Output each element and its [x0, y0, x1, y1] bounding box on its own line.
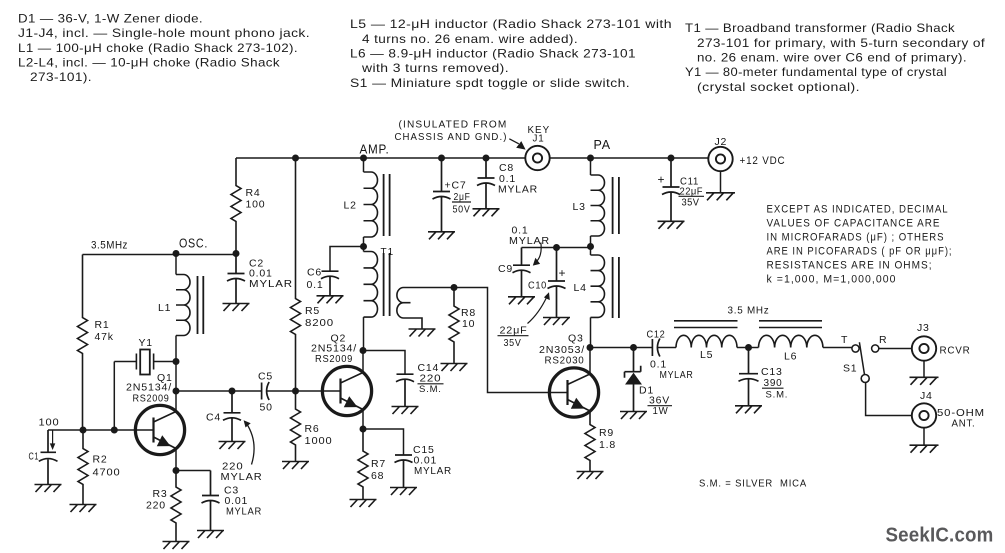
svg-text:RS2009: RS2009 [133, 393, 170, 405]
svg-text:D1 — 36-V, 1-W Zener diode.: D1 — 36-V, 1-W Zener diode. [18, 12, 203, 26]
wire L4 bottom to Q3 collector node [590, 317, 592, 347]
wire supply rail J1 to J2 [550, 157, 709, 159]
junction PA rail-L3 [587, 155, 594, 162]
core lines above L5 [674, 321, 738, 328]
core lines of L1 [198, 276, 204, 334]
phono jack J2 +12V [708, 147, 732, 171]
junction L2-T1-C6 [360, 243, 367, 250]
svg-text:S1 — Miniature spdt toggle or: S1 — Miniature spdt toggle or slide swit… [350, 76, 630, 90]
svg-text:RS2030: RS2030 [545, 355, 585, 367]
wire J4 ground lead [923, 428, 925, 446]
phono jack J4 antenna [912, 403, 936, 427]
svg-text:22μF: 22μF [500, 325, 528, 337]
svg-text:273-101).: 273-101). [30, 70, 92, 84]
wire Q1 emitter down [175, 449, 177, 471]
wire T1 primary top lead [363, 247, 365, 252]
svg-text:MYLAR: MYLAR [226, 506, 262, 518]
svg-text:L5 — 12-μH inductor (Radio Sha: L5 — 12-μH inductor (Radio Shack 273-101… [350, 17, 672, 31]
svg-text:47k: 47k [95, 331, 114, 343]
capacitor C9 0.1 mylar [513, 248, 531, 297]
wire 3.5MHz node from R1 to OSC node [83, 254, 237, 256]
arrow from GND label to J1 [509, 139, 519, 144]
svg-text:+12 VDC: +12 VDC [740, 155, 786, 167]
legend parts list left column [18, 12, 310, 85]
wire L2 bottom lead [363, 237, 365, 247]
ground below C2 [223, 304, 250, 312]
svg-text:EXCEPT AS INDICATED, DECIMAL: EXCEPT AS INDICATED, DECIMAL [767, 204, 949, 216]
capacitor C2 0.01 mylar [227, 254, 245, 304]
svg-text:ANT.: ANT. [952, 418, 976, 430]
resistor R8 10 [449, 288, 459, 364]
svg-text:1W: 1W [653, 405, 669, 417]
svg-text:S1: S1 [843, 363, 857, 375]
ground below C9 [508, 297, 535, 305]
svg-text:2μF: 2μF [454, 191, 471, 203]
wire L3 top lead [590, 158, 592, 175]
transistor Q1 2N5134/RS2009 [135, 405, 184, 454]
svg-text:ARE IN PICOFARADS ( pF OR μμF): ARE IN PICOFARADS ( pF OR μμF); [767, 246, 953, 258]
wire C6 branch corner [330, 247, 364, 272]
ground below C4 [219, 442, 246, 450]
svg-text:L1: L1 [158, 302, 171, 314]
svg-text:10: 10 [462, 318, 475, 330]
wire C5 to Q2 base [267, 390, 341, 392]
svg-text:T: T [841, 334, 848, 346]
svg-text:1000: 1000 [305, 435, 333, 447]
wire J3 ground lead [923, 361, 925, 378]
junction Q3 collector node [587, 344, 594, 351]
wire Q1 collector node to C5 [176, 390, 262, 392]
underline C11 value [679, 195, 705, 197]
inductor L4 [591, 255, 605, 317]
capacitor C4 220 mylar [223, 391, 241, 442]
svg-text:3.5MHz: 3.5MHz [91, 240, 128, 252]
svg-text:35V: 35V [682, 198, 700, 209]
resistor R6 1000 [291, 391, 301, 462]
svg-text:C9: C9 [498, 263, 513, 275]
svg-text:L3: L3 [573, 201, 586, 213]
junction C10 tap [553, 244, 560, 251]
ground below C6 [317, 296, 344, 304]
ground below R6 [282, 462, 309, 470]
wire L1 top lead [175, 254, 177, 275]
svg-text:MYLAR: MYLAR [660, 369, 694, 381]
underline D1 value [648, 405, 673, 407]
legend parts list right column [685, 21, 985, 94]
legend parts list middle column [350, 17, 672, 90]
capacitor C10 22uF electrolytic [548, 248, 566, 318]
junction L5-L6-C13 [745, 344, 752, 351]
junction rail-C11 [668, 155, 675, 162]
underline C7 value [452, 201, 471, 203]
wire T1 primary bottom to Q2 collector node [363, 317, 365, 350]
svg-text:C4: C4 [206, 412, 221, 424]
svg-text:Q3: Q3 [568, 333, 584, 345]
wire R contact to J3 [879, 348, 912, 350]
svg-text:J2: J2 [715, 136, 728, 148]
svg-text:R1: R1 [95, 319, 110, 331]
wire L6 to switch T contact [823, 347, 852, 349]
wire Y1 left terminal down to base node [113, 362, 115, 431]
capacitor C1 100pF [39, 430, 58, 485]
ground below C8 [473, 209, 500, 217]
svg-text:C5: C5 [258, 371, 273, 383]
svg-text:100: 100 [39, 417, 60, 429]
svg-text:J1: J1 [533, 134, 545, 145]
resistor R2 4700 [78, 430, 88, 505]
ground below C10 [543, 318, 570, 326]
svg-text:T1 — Broadband transformer (Ra: T1 — Broadband transformer (Radio Shack [685, 21, 955, 35]
junction L3-L4-C9 wire [587, 243, 594, 250]
svg-text:C10: C10 [528, 280, 547, 292]
capacitor C8 0.1 mylar [477, 158, 495, 209]
svg-text:with 3 turns removed).: with 3 turns removed). [361, 61, 509, 75]
svg-text:IN MICROFARADS (μF) ; OTHERS: IN MICROFARADS (μF) ; OTHERS [767, 232, 945, 244]
junction rail-R5 [292, 155, 299, 162]
svg-text:35V: 35V [504, 337, 522, 349]
svg-text:J3: J3 [917, 322, 930, 334]
ground below R2 [70, 505, 97, 513]
wire J2 ground lead [720, 171, 722, 193]
svg-text:k =1,000, M=1,000,000: k =1,000, M=1,000,000 [767, 274, 897, 286]
svg-text:3.5 MHz: 3.5 MHz [728, 305, 770, 317]
svg-text:MYLAR: MYLAR [414, 465, 452, 477]
ground below J4 [910, 445, 939, 453]
junction emitter-R3-C3 [173, 467, 180, 474]
zener diode D1 36V 1W [625, 348, 642, 412]
resistor R1 47k [78, 255, 88, 431]
capacitor C14 220 silver mica [396, 374, 414, 407]
junction collector line to C5 wire [173, 388, 180, 395]
svg-text:CHASSIS AND GND.): CHASSIS AND GND.) [395, 132, 508, 143]
svg-text:R3: R3 [153, 488, 168, 500]
svg-text:1.8: 1.8 [599, 439, 616, 451]
capacitor C15 0.01 mylar [395, 455, 413, 488]
svg-text:RS2009: RS2009 [315, 353, 353, 365]
junction base-Y1 branch [111, 427, 118, 434]
ground below C15 [390, 488, 417, 496]
wire L5 to L6 [737, 347, 759, 349]
junction R5-R6 tap [292, 388, 299, 395]
svg-text:L2-L4, incl. — 10-μH choke (Ra: L2-L4, incl. — 10-μH choke (Radio Shack [18, 55, 280, 69]
junction C4 tap [229, 388, 236, 395]
svg-text:L2: L2 [344, 200, 357, 212]
core lines of L3 [613, 177, 619, 234]
capacitor C6 0.1 [321, 271, 339, 296]
capacitor C5 50pF [262, 382, 270, 400]
ground below C1 [35, 485, 62, 493]
underline C10 value [498, 335, 529, 337]
wire Q3 collector up [589, 348, 591, 375]
junction T1 secondary - R8 [451, 284, 458, 291]
svg-text:(crystal socket optional).: (crystal socket optional). [697, 80, 860, 94]
svg-text:68: 68 [371, 470, 384, 482]
wire L2 top lead [363, 158, 365, 172]
capacitor C13 390 silver mica [739, 348, 759, 406]
svg-text:+: + [658, 173, 665, 187]
core lines above L6 [759, 321, 822, 328]
ground below C14 [392, 407, 419, 415]
junction base-R1R2 [80, 427, 87, 434]
resistor R3 220 [171, 471, 181, 542]
svg-text:390: 390 [764, 377, 783, 389]
wire Q1 base node [48, 429, 154, 431]
ground below J3 [910, 377, 939, 385]
junction rail-C7 [438, 155, 445, 162]
resistor R4 100 [231, 158, 241, 254]
resistor R9 1.8 [585, 411, 595, 472]
svg-text:R7: R7 [371, 458, 386, 470]
ground below C7 [428, 232, 455, 240]
svg-text:no. 26 enam. wire over C6 end: no. 26 enam. wire over C6 end of primary… [697, 51, 967, 65]
svg-text:C1: C1 [29, 451, 40, 463]
junction OSC wire-L1 [173, 250, 180, 257]
svg-text:R6: R6 [305, 423, 320, 435]
junction D1 tap [630, 344, 637, 351]
wire emitter node to C3 [176, 470, 211, 472]
wire +12V supply rail from R4 top to J1 [236, 157, 525, 159]
inductor L6 [759, 335, 823, 347]
svg-text:L6: L6 [784, 351, 797, 363]
svg-text:AMP.: AMP. [360, 143, 390, 157]
svg-text:+C7: +C7 [445, 180, 467, 192]
underline C13 value [762, 387, 784, 389]
junction rail-AMP L2 [360, 155, 367, 162]
svg-text:Y1 — 80-meter fundamental type: Y1 — 80-meter fundamental type of crysta… [685, 65, 947, 79]
svg-text:R9: R9 [599, 427, 614, 439]
inductor L5 [676, 335, 737, 347]
svg-text:220: 220 [146, 500, 166, 512]
svg-text:C6: C6 [307, 267, 322, 279]
junction Q2 emitter node [360, 426, 367, 433]
junction Q2 collector node [360, 347, 367, 354]
svg-text:L4: L4 [574, 282, 587, 294]
capacitor C3 0.01 mylar [202, 471, 220, 531]
inductor L3 [591, 175, 605, 236]
notes text block [767, 204, 953, 286]
transistor Q2 2N5134/RS2009 [322, 366, 371, 415]
resistor R5 8200 [291, 158, 301, 391]
ground below R8 [441, 364, 468, 372]
svg-text:C12: C12 [647, 329, 666, 341]
transformer T1 secondary winding [397, 288, 454, 330]
svg-text:MYLAR: MYLAR [221, 471, 263, 483]
junction OSC wire-R4-C2 [233, 250, 240, 257]
ground below D1 [620, 412, 647, 420]
svg-text:R: R [879, 334, 887, 346]
svg-text:R4: R4 [246, 187, 261, 199]
ground below R7 [350, 500, 377, 508]
ground below T1 secondary [409, 329, 436, 337]
wire Q2 emitter node to C15 [363, 429, 404, 455]
inductor L1 100uH [176, 275, 190, 336]
phono jack J1 KEY [525, 146, 549, 170]
wire Q3 collector node to C12 [590, 347, 652, 349]
svg-text:0.1: 0.1 [307, 279, 324, 291]
junction Y1-collector line [173, 358, 180, 365]
svg-text:50V: 50V [453, 204, 471, 216]
arrow from 22uF label to C10 [528, 297, 548, 324]
svg-text:MYLAR: MYLAR [498, 184, 538, 196]
wire T1 secondary node to Q3 base [454, 288, 568, 393]
svg-text:VALUES OF CAPACITANCE ARE: VALUES OF CAPACITANCE ARE [767, 218, 941, 230]
ground below R3 [163, 542, 190, 550]
switch S1 contacts and arm [852, 342, 879, 382]
svg-text:4700: 4700 [93, 467, 121, 479]
transistor Q3 2N3053/RS2030 [549, 368, 598, 417]
svg-text:PA: PA [594, 138, 611, 152]
capacitor C7 2uF electrolytic [433, 158, 451, 232]
inductor T1 primary [364, 252, 378, 318]
junction rail-C8 [483, 155, 490, 162]
svg-text:RCVR: RCVR [940, 345, 971, 357]
svg-text:273-101 for primary, with 5-tu: 273-101 for primary, with 5-turn seconda… [697, 36, 985, 50]
underline C14 value [418, 383, 444, 385]
svg-text:SeekIC.com: SeekIC.com [886, 525, 994, 547]
svg-text:OSC.: OSC. [179, 237, 208, 251]
svg-text:L6 — 8.9-μH inductor (Radio Sh: L6 — 8.9-μH inductor (Radio Shack 273-10… [350, 47, 636, 61]
svg-text:MYLAR: MYLAR [509, 235, 550, 247]
wire C12 to L5 [658, 347, 676, 349]
core lines of L4 [613, 257, 619, 318]
ground below J2 [706, 193, 735, 201]
svg-text:MYLAR: MYLAR [249, 278, 293, 290]
svg-text:S.M.: S.M. [419, 384, 442, 395]
core lines of L2 [384, 174, 390, 236]
svg-text:RESISTANCES ARE IN OHMS;: RESISTANCES ARE IN OHMS; [767, 260, 933, 272]
svg-text:(INSULATED FROM: (INSULATED FROM [399, 120, 508, 131]
wire Q2 collector up [362, 351, 364, 373]
inductor L2 [364, 172, 378, 237]
arrow from 0.1 MYLAR label to C9 [537, 243, 541, 262]
arrow from 100 label to C1 [52, 431, 54, 445]
svg-text:T1: T1 [381, 247, 395, 258]
svg-text:L5: L5 [700, 349, 713, 361]
ground below C11 [658, 221, 685, 229]
ground below C3 [197, 531, 224, 539]
svg-text:4 turns no. 26 enam. wire adde: 4 turns no. 26 enam. wire added). [362, 32, 578, 46]
svg-text:R5: R5 [305, 305, 320, 317]
svg-text:8200: 8200 [305, 317, 334, 329]
ground below R9 [577, 472, 604, 480]
svg-text:Y1: Y1 [139, 337, 153, 349]
svg-text:50: 50 [260, 402, 273, 414]
capacitor C11 22uF electrolytic [662, 158, 680, 221]
wire L3 bottom / L4 top node to C9 [522, 236, 591, 255]
svg-text:L1 — 100-μH choke (Radio Shack: L1 — 100-μH choke (Radio Shack 273-102). [18, 41, 298, 55]
svg-text:R2: R2 [93, 454, 108, 466]
wire Q2 collector node to C14 [363, 351, 405, 375]
svg-text:J1-J4, incl. — Single-hole mou: J1-J4, incl. — Single-hole mount phono j… [18, 26, 310, 40]
core lines of T1 [384, 253, 390, 316]
ground below C13 [735, 406, 762, 414]
wire L1 bottom to Q1 collector [175, 336, 177, 412]
crystal Y1 [114, 350, 176, 375]
svg-text:100: 100 [246, 199, 266, 211]
svg-text:+: + [559, 266, 566, 280]
wire S1 pole to J4 [866, 382, 912, 416]
svg-text:J4: J4 [920, 390, 933, 402]
svg-text:S.M. = SILVER MICA: S.M. = SILVER MICA [699, 479, 807, 490]
svg-text:S.M.: S.M. [766, 390, 789, 401]
capacitor C12 0.1 mylar [652, 339, 660, 357]
arrow from 220 MYLAR label to C4 [247, 424, 255, 465]
wire Q2 emitter down [362, 410, 364, 430]
phono jack J3 receiver [912, 336, 936, 360]
resistor R7 68 [358, 429, 368, 500]
svg-text:220: 220 [420, 373, 442, 385]
